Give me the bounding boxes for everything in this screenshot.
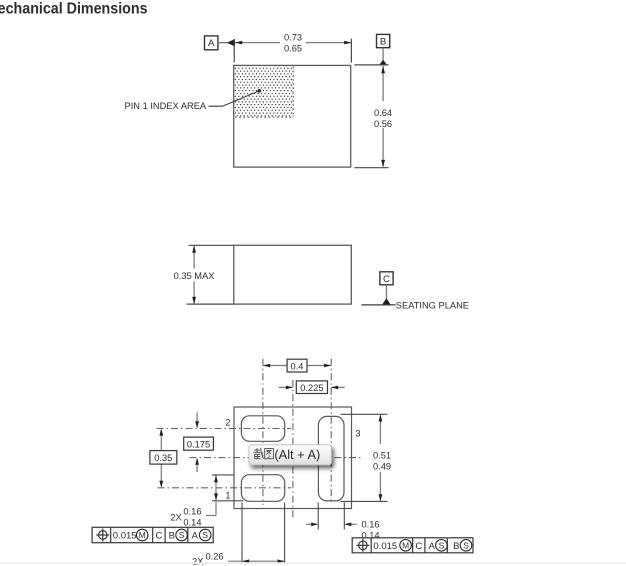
pad 2 [241, 416, 284, 442]
svg-text:C: C [155, 531, 162, 542]
svg-text:0.175: 0.175 [187, 439, 210, 449]
dim 0.35 MAX [193, 246, 195, 269]
center line v package [292, 380, 294, 518]
svg-text:B: B [380, 37, 386, 48]
svg-text:0.14: 0.14 [183, 517, 201, 527]
svg-text:B: B [453, 541, 459, 552]
datum B box [377, 34, 390, 47]
package bottom outline [234, 407, 352, 509]
svg-text:PIN 1 INDEX AREA: PIN 1 INDEX AREA [125, 101, 207, 111]
svg-text:0.4: 0.4 [291, 361, 304, 371]
svg-text:S: S [202, 530, 208, 540]
feature control frame right [352, 538, 473, 553]
dim 0.225 boxed [279, 386, 293, 388]
svg-text:0.35: 0.35 [154, 453, 172, 463]
svg-text:3: 3 [355, 428, 360, 438]
svg-text:C: C [415, 541, 422, 552]
screenshot tooltip [249, 445, 331, 465]
svg-text:0.73: 0.73 [284, 32, 302, 42]
svg-text:B: B [169, 531, 175, 542]
dim 0.4 boxed [263, 365, 287, 367]
svg-text:0.16: 0.16 [183, 506, 201, 516]
svg-text:2X: 2X [192, 556, 203, 566]
datum C leader and triangle [385, 285, 387, 300]
dim 0.51/0.49 right [341, 413, 388, 415]
svg-text:0.56: 0.56 [374, 119, 392, 129]
svg-text:S: S [179, 530, 185, 540]
dim 0.64/0.56 [354, 64, 388, 66]
dim 0.35 left [160, 430, 162, 451]
svg-text:M: M [139, 530, 146, 540]
svg-text:0.015: 0.015 [113, 531, 137, 542]
center line h package [190, 457, 363, 459]
datum B leader and triangle [382, 48, 384, 61]
extension lines [189, 244, 234, 246]
datum C box [380, 272, 393, 285]
svg-text:0.225: 0.225 [300, 383, 323, 393]
svg-text:0.35 MAX: 0.35 MAX [174, 271, 215, 281]
svg-text:2X: 2X [170, 513, 181, 523]
feature control frame left [92, 527, 213, 542]
svg-text:0.16: 0.16 [361, 519, 379, 529]
bottom page divider line [0, 562, 626, 564]
seating plane line [361, 304, 395, 306]
dim 0.175 boxed [196, 413, 198, 428]
svg-text:M: M [402, 540, 409, 550]
center line h pad 1 [158, 487, 292, 489]
center line h pad 2 [157, 428, 292, 430]
svg-text:C: C [383, 274, 390, 285]
svg-text:A: A [429, 541, 436, 552]
package side outline [234, 245, 351, 304]
dim 0.73/0.65 [233, 39, 235, 63]
svg-text:Mechanical Dimensions: Mechanical Dimensions [0, 0, 148, 18]
svg-text:0.26: 0.26 [205, 552, 223, 562]
center line v pads 1-2 [262, 359, 264, 505]
svg-text:0.51: 0.51 [373, 451, 391, 461]
center line v pad 3 [330, 359, 332, 503]
package body outline [234, 65, 351, 167]
svg-text:1: 1 [225, 491, 230, 501]
svg-text:0.65: 0.65 [284, 44, 302, 54]
svg-text:A: A [208, 38, 215, 49]
svg-text:S: S [463, 540, 469, 550]
svg-text:0.64: 0.64 [374, 108, 392, 118]
pad 1 [241, 475, 284, 502]
dim 2X 0.16/0.14 left [212, 474, 235, 476]
svg-text:0.14: 0.14 [361, 530, 379, 540]
svg-text:0.015: 0.015 [373, 541, 397, 552]
dim 2X 0.26 bottom [241, 503, 243, 564]
svg-text:SEATING PLANE: SEATING PLANE [396, 300, 469, 310]
datum A box [205, 36, 218, 50]
pin 1 index stipple area [234, 66, 293, 117]
svg-text:0.49: 0.49 [373, 462, 391, 472]
svg-text:S: S [439, 540, 445, 550]
svg-text:(Alt + A): (Alt + A) [274, 447, 320, 462]
svg-text:A: A [192, 531, 199, 542]
pad 3 [318, 416, 344, 501]
dim 0.16/0.14 pad3 width [317, 502, 319, 529]
datum A leader and arrow [218, 42, 228, 44]
svg-text:2: 2 [225, 417, 230, 427]
leader [209, 91, 259, 106]
